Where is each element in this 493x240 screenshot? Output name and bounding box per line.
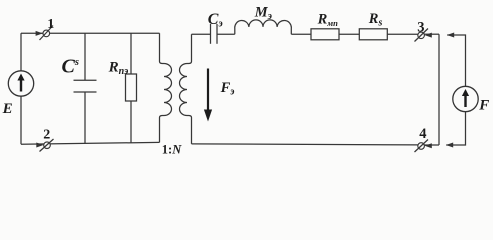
svg-text:Fэ: Fэ bbox=[220, 80, 235, 98]
svg-text:Cs: Cs bbox=[62, 56, 79, 78]
wire Rs to node 3 bbox=[387, 33, 418, 35]
wire left vertical bbox=[20, 33, 22, 144]
source E bbox=[8, 71, 33, 96]
node 2 terminal circle bbox=[44, 142, 51, 149]
capacitor Cs plates bbox=[74, 79, 97, 81]
svg-text:2: 2 bbox=[43, 127, 50, 142]
inductor Me coil bbox=[235, 20, 292, 34]
source F bottom lead arrowhead bbox=[446, 143, 453, 148]
source F top lead arrowhead bbox=[447, 33, 454, 38]
resistor Rpe branch wires bbox=[130, 33, 132, 74]
node 4 slash bbox=[415, 140, 429, 153]
node 2 slash bbox=[40, 139, 54, 152]
node 4 arrowhead bbox=[425, 143, 432, 148]
wire node 4 to right corner bbox=[425, 144, 440, 146]
wire inductor to resistor Rmp bbox=[291, 33, 311, 35]
svg-text:3: 3 bbox=[417, 20, 424, 36]
transformer secondary winding bbox=[180, 34, 192, 144]
svg-text:Cэ: Cэ bbox=[208, 11, 223, 30]
svg-text:4: 4 bbox=[419, 126, 426, 142]
wire right vertical (3-4 port) bbox=[438, 34, 440, 145]
svg-text:1:N: 1:N bbox=[162, 142, 182, 156]
force arrow Fe bbox=[204, 69, 212, 122]
node 2 arrowhead bbox=[36, 143, 43, 148]
source F branch bottom wire bbox=[446, 111, 465, 145]
svg-text:Rмп: Rмп bbox=[317, 11, 338, 27]
source F bbox=[453, 86, 478, 111]
wire Rmp to Rs bbox=[339, 33, 359, 35]
svg-text:Mэ: Mэ bbox=[254, 5, 272, 22]
wire bottom-left horizontal bbox=[21, 142, 160, 144]
node 1 terminal circle bbox=[43, 30, 50, 37]
transformer primary winding bbox=[160, 33, 172, 142]
svg-text:Rs: Rs bbox=[368, 11, 383, 29]
svg-text:1: 1 bbox=[47, 17, 54, 32]
resistor Rs body bbox=[359, 29, 387, 40]
node 1 slash bbox=[40, 26, 54, 41]
wire capacitor Ce to inductor bbox=[217, 33, 235, 35]
resistor Rmp body bbox=[311, 29, 339, 40]
node 3 arrowhead bbox=[425, 33, 432, 38]
node 4 terminal circle bbox=[418, 143, 425, 150]
svg-text:Rпэ: Rпэ bbox=[108, 59, 129, 77]
wire node 3 to right corner bbox=[424, 33, 439, 35]
source F branch top wire bbox=[447, 35, 465, 87]
node 1 arrowhead bbox=[36, 31, 43, 36]
node 3 terminal circle bbox=[418, 32, 425, 39]
svg-text:E: E bbox=[2, 101, 13, 117]
svg-text:F: F bbox=[478, 98, 489, 114]
capacitor Cs branch wires bbox=[84, 33, 86, 80]
capacitor Ce plates bbox=[210, 24, 212, 44]
wire top-right: secondary to capacitor Ce bbox=[192, 33, 211, 35]
wire top-left horizontal (node1 to transformer) bbox=[21, 32, 160, 34]
wire bottom-right horizontal bbox=[192, 144, 418, 145]
resistor Rpe body bbox=[126, 74, 137, 101]
node 3 slash bbox=[415, 29, 429, 42]
